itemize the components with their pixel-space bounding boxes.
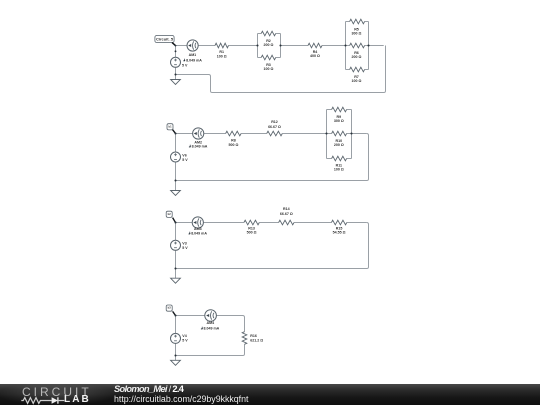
svg-text:8.049 mA: 8.049 mA bbox=[204, 326, 220, 330]
svg-text:5 V: 5 V bbox=[182, 63, 188, 67]
svg-text:AM4: AM4 bbox=[207, 321, 215, 325]
svg-text:200 Ω: 200 Ω bbox=[352, 55, 362, 59]
svg-text:8.049 mA: 8.049 mA bbox=[192, 144, 208, 148]
svg-text:8.049 mA: 8.049 mA bbox=[186, 58, 202, 62]
svg-text:R16: R16 bbox=[250, 334, 257, 338]
svg-text:100 Ω: 100 Ω bbox=[334, 168, 344, 172]
svg-text:200 Ω: 200 Ω bbox=[334, 143, 344, 147]
svg-text:200 Ω: 200 Ω bbox=[264, 43, 274, 47]
svg-text:V4: V4 bbox=[182, 334, 186, 338]
svg-text:R14: R14 bbox=[283, 207, 290, 211]
svg-text:66.67 Ω: 66.67 Ω bbox=[268, 125, 281, 129]
svg-text:500 Ω: 500 Ω bbox=[247, 231, 257, 235]
svg-text:500 Ω: 500 Ω bbox=[228, 143, 238, 147]
svg-text:621.2 Ω: 621.2 Ω bbox=[250, 339, 263, 343]
svg-text:Circuit_5: Circuit_5 bbox=[156, 37, 174, 42]
svg-text:66.67 Ω: 66.67 Ω bbox=[280, 212, 293, 216]
svg-text:300 Ω: 300 Ω bbox=[334, 119, 344, 123]
svg-text:5 V: 5 V bbox=[182, 158, 188, 162]
svg-text:100 Ω: 100 Ω bbox=[217, 54, 227, 58]
svg-text:100 Ω: 100 Ω bbox=[352, 79, 362, 83]
svg-text:8.049 mA: 8.049 mA bbox=[191, 231, 207, 235]
svg-text:100 Ω: 100 Ω bbox=[264, 67, 274, 71]
svg-text:AM1: AM1 bbox=[189, 53, 197, 57]
svg-text:400 Ω: 400 Ω bbox=[310, 54, 320, 58]
svg-text:5 V: 5 V bbox=[182, 338, 188, 342]
svg-text:54.55 Ω: 54.55 Ω bbox=[333, 231, 346, 235]
svg-text:5 V: 5 V bbox=[182, 246, 188, 250]
svg-text:300 Ω: 300 Ω bbox=[352, 32, 362, 36]
svg-text:R12: R12 bbox=[271, 120, 278, 124]
